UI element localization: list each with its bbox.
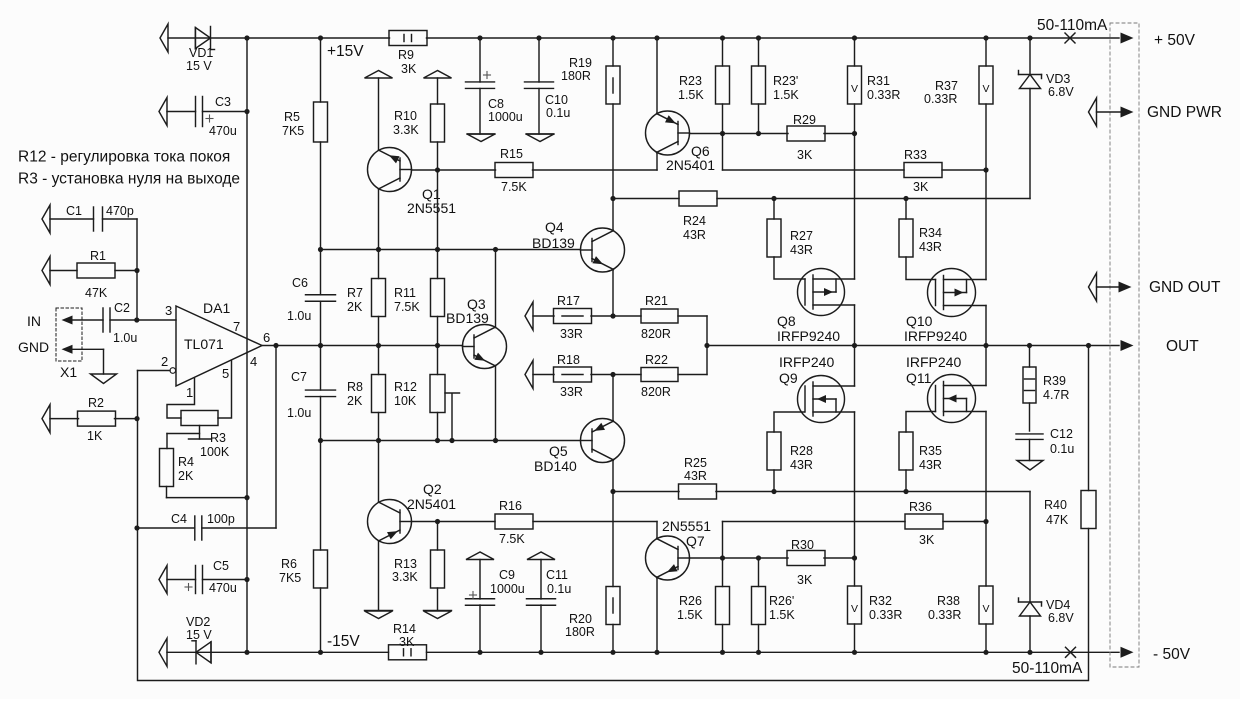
svg-text:R1: R1 bbox=[90, 249, 106, 263]
ground C12 bbox=[1017, 461, 1043, 471]
svg-text:R40: R40 bbox=[1044, 498, 1067, 512]
node R35 lower rail bbox=[903, 489, 908, 494]
wire Q2 collector bbox=[378, 441, 380, 503]
svg-text:3K: 3K bbox=[401, 62, 417, 76]
svg-text:TL071: TL071 bbox=[184, 336, 224, 352]
wire Q8 drain to output bbox=[854, 305, 856, 346]
svg-text:V: V bbox=[851, 83, 858, 95]
svg-text:BD139: BD139 bbox=[446, 310, 489, 326]
svg-text:R32: R32 bbox=[869, 594, 892, 608]
node R27 bias rail bbox=[771, 196, 776, 201]
svg-text:R37: R37 bbox=[935, 79, 958, 93]
pin 2 inverting input bbox=[170, 368, 176, 374]
svg-text:5: 5 bbox=[222, 366, 229, 381]
pin 1 wire bbox=[167, 379, 195, 419]
svg-text:V: V bbox=[851, 603, 858, 615]
wire Q1 collector bbox=[378, 78, 380, 150]
wire Q6 base row bbox=[690, 133, 789, 135]
resistor R13 bbox=[437, 522, 439, 551]
svg-text:R33: R33 bbox=[904, 148, 927, 162]
resistor R16 bbox=[495, 514, 533, 529]
svg-text:VD2: VD2 bbox=[186, 615, 210, 629]
resistor R23' bbox=[756, 35, 761, 40]
transistor Q7 2N5551 bbox=[646, 536, 690, 580]
svg-text:100p: 100p bbox=[207, 512, 235, 526]
svg-text:1.5K: 1.5K bbox=[769, 608, 795, 622]
svg-text:1000u: 1000u bbox=[488, 110, 523, 124]
wire Q7 emitter bbox=[656, 578, 658, 653]
wire C1 to R1 node bbox=[136, 219, 138, 320]
svg-text:15 V: 15 V bbox=[186, 628, 212, 642]
resistor R23 bbox=[720, 35, 725, 40]
resistor R26' 1.5K bbox=[756, 555, 761, 560]
capacitor C9 bbox=[466, 552, 494, 560]
svg-text:R15: R15 bbox=[500, 147, 523, 161]
capacitor C7 bbox=[320, 346, 322, 391]
wire -50V bottom rail bbox=[167, 651, 389, 653]
node R29 R31 bbox=[852, 131, 857, 136]
wire R15 to Q6 collector bbox=[533, 169, 658, 171]
svg-text:R26: R26 bbox=[679, 594, 702, 608]
resistor R6 bbox=[320, 441, 322, 551]
node R12 tap bbox=[449, 438, 454, 443]
svg-text:R6: R6 bbox=[281, 557, 297, 571]
resistor R24 43R bbox=[679, 191, 717, 206]
svg-text:C8: C8 bbox=[488, 97, 504, 111]
svg-text:R28: R28 bbox=[790, 444, 813, 458]
resistor R36 3K bbox=[905, 514, 943, 529]
svg-text:3.3K: 3.3K bbox=[393, 123, 419, 137]
svg-text:1.5K: 1.5K bbox=[678, 88, 704, 102]
svg-text:R14: R14 bbox=[393, 622, 416, 636]
svg-text:3K: 3K bbox=[919, 533, 935, 547]
svg-text:IRFP240: IRFP240 bbox=[906, 354, 961, 370]
node R18 bbox=[610, 372, 615, 377]
wire R16 row left bbox=[412, 521, 496, 523]
svg-text:50-110mA: 50-110mA bbox=[1012, 660, 1083, 677]
resistor R5 bbox=[320, 38, 322, 102]
transistor Q4 BD139 bbox=[581, 228, 625, 272]
wire Q5 emitter bbox=[612, 375, 614, 422]
wire Q11 drain to output bbox=[985, 346, 987, 386]
svg-text:R5: R5 bbox=[284, 110, 300, 124]
svg-text:C11: C11 bbox=[546, 568, 568, 582]
capacitor C5 bbox=[159, 566, 167, 594]
x mark bottom bbox=[1066, 647, 1076, 657]
node R36 bbox=[983, 519, 988, 524]
svg-text:2K: 2K bbox=[347, 300, 363, 314]
zener VD1 bbox=[194, 28, 196, 49]
transistor Q5 BD140 bbox=[581, 419, 625, 463]
svg-text:1.5K: 1.5K bbox=[677, 608, 703, 622]
wire +50V top rail bbox=[168, 37, 390, 39]
capacitor C12 bbox=[1016, 433, 1043, 435]
svg-text:33R: 33R bbox=[560, 327, 583, 341]
svg-text:43R: 43R bbox=[790, 458, 813, 472]
nodes output row bbox=[318, 343, 323, 348]
svg-text:X1: X1 bbox=[60, 364, 77, 380]
svg-text:R13: R13 bbox=[394, 557, 417, 571]
svg-text:10K: 10K bbox=[394, 394, 417, 408]
power flag R13 bbox=[424, 611, 452, 619]
svg-text:- 50V: - 50V bbox=[1153, 646, 1191, 663]
svg-text:C12: C12 bbox=[1050, 427, 1073, 441]
resistor R39 4.7R bbox=[1027, 343, 1032, 348]
svg-text:R3 - установка нуля на выходе: R3 - установка нуля на выходе bbox=[18, 171, 240, 188]
node R10 R15 bbox=[435, 167, 440, 172]
wire R10 to rail bbox=[437, 170, 439, 250]
svg-text:Q7: Q7 bbox=[686, 533, 705, 549]
node R4 to -15V line bbox=[244, 495, 249, 500]
resistor R7 bbox=[378, 250, 380, 279]
svg-text:R23': R23' bbox=[773, 74, 798, 88]
resistor R9 3K 2W bbox=[389, 31, 427, 46]
svg-text:R36: R36 bbox=[909, 500, 932, 514]
wire x=247 supply line pin7/pin4 bbox=[246, 38, 248, 652]
svg-text:33R: 33R bbox=[560, 385, 583, 399]
wire Q4 collector bbox=[612, 199, 614, 231]
svg-text:180R: 180R bbox=[561, 69, 591, 83]
resistor R37 0.33R 5W bbox=[983, 35, 988, 40]
svg-text:820R: 820R bbox=[641, 327, 671, 341]
svg-text:Q10: Q10 bbox=[906, 313, 933, 329]
wire to ground bbox=[103, 349, 105, 374]
node R19 bias rail bbox=[610, 196, 615, 201]
svg-text:R19: R19 bbox=[569, 56, 592, 70]
ground X1 bbox=[91, 374, 117, 384]
svg-text:R12 - регулировка тока покоя: R12 - регулировка тока покоя bbox=[18, 149, 230, 166]
node R2 feedback bbox=[134, 416, 139, 421]
wire Q10 drain to output bbox=[985, 306, 987, 346]
resistor R29 3K bbox=[787, 126, 825, 141]
resistor R21 bbox=[641, 309, 678, 323]
power flag Q2 bbox=[365, 611, 393, 619]
potentiometer R3 bbox=[181, 411, 218, 426]
transistor Q2 2N5401 bbox=[368, 500, 412, 544]
resistor R11 bbox=[437, 250, 439, 279]
wire lower bias rail bbox=[613, 491, 679, 493]
svg-text:6: 6 bbox=[263, 330, 270, 345]
svg-text:6.8V: 6.8V bbox=[1048, 611, 1074, 625]
resistor R19 180R 1W bbox=[610, 35, 615, 40]
svg-text:47K: 47K bbox=[1046, 513, 1069, 527]
resistor R30 3K bbox=[787, 551, 825, 566]
ground flag C8 bbox=[467, 134, 495, 142]
svg-text:Q5: Q5 bbox=[549, 443, 568, 459]
svg-text:820R: 820R bbox=[641, 385, 671, 399]
capacitor C10 bbox=[536, 35, 541, 40]
connector X1 bbox=[56, 308, 82, 361]
svg-text:15 V: 15 V bbox=[186, 59, 212, 73]
wire R28 to Q9 gate bbox=[774, 412, 804, 432]
svg-text:C5: C5 bbox=[213, 559, 229, 573]
svg-text:4: 4 bbox=[250, 354, 257, 369]
node R30 R32 bbox=[852, 555, 857, 560]
node R34 bias rail bbox=[903, 196, 908, 201]
wire Q4 emitter bbox=[612, 270, 614, 317]
capacitor C1 bbox=[42, 205, 50, 233]
svg-text:R7: R7 bbox=[347, 286, 363, 300]
capacitor C4 bbox=[134, 525, 139, 530]
wire R31 to Q8 source bbox=[854, 134, 856, 280]
svg-text:2K: 2K bbox=[347, 394, 363, 408]
svg-text:DA1: DA1 bbox=[203, 300, 230, 316]
svg-text:BD140: BD140 bbox=[534, 458, 577, 474]
svg-text:7.5K: 7.5K bbox=[394, 300, 420, 314]
svg-text:7K5: 7K5 bbox=[279, 571, 301, 585]
terminal +50V bbox=[1121, 33, 1134, 44]
svg-text:47K: 47K bbox=[85, 286, 108, 300]
svg-text:GND: GND bbox=[18, 339, 49, 355]
svg-text:43R: 43R bbox=[684, 469, 707, 483]
svg-text:2N5401: 2N5401 bbox=[666, 157, 715, 173]
terminal OUT bbox=[1121, 340, 1134, 351]
resistor R34 43R bbox=[905, 199, 907, 220]
svg-text:R4: R4 bbox=[178, 455, 194, 469]
resistor R38 0.33R 5W bbox=[985, 522, 987, 587]
wire upper driver rail bbox=[321, 249, 580, 251]
wire R34 to Q10 gate bbox=[906, 257, 936, 280]
ground flag VD2 row bbox=[159, 638, 167, 666]
svg-text:OUT: OUT bbox=[1166, 338, 1199, 355]
wire Q11 source down bbox=[985, 412, 987, 522]
resistor R15 bbox=[495, 163, 533, 178]
svg-text:C2: C2 bbox=[114, 301, 130, 315]
svg-text:C1: C1 bbox=[66, 204, 82, 218]
svg-text:3K: 3K bbox=[913, 180, 929, 194]
node pin3 bbox=[134, 317, 139, 322]
svg-text:50-110mA: 50-110mA bbox=[1037, 17, 1108, 34]
svg-text:BD139: BD139 bbox=[532, 235, 575, 251]
svg-text:7.5K: 7.5K bbox=[501, 180, 527, 194]
zener VD4 bbox=[1029, 492, 1031, 603]
svg-text:R22: R22 bbox=[645, 353, 668, 367]
wire output pin 6 bbox=[262, 345, 463, 347]
svg-text:1.0u: 1.0u bbox=[113, 331, 137, 345]
capacitor C2 bbox=[102, 308, 104, 332]
svg-text:R16: R16 bbox=[499, 499, 522, 513]
svg-text:GND PWR: GND PWR bbox=[1147, 104, 1222, 121]
svg-text:R25: R25 bbox=[684, 456, 707, 470]
svg-text:6.8V: 6.8V bbox=[1048, 85, 1074, 99]
wire upper bias rail bbox=[613, 198, 679, 200]
svg-text:2N5401: 2N5401 bbox=[407, 496, 456, 512]
mosfet Q9 IRFP240 bbox=[798, 376, 845, 423]
node C3 bbox=[244, 109, 249, 114]
wire R23 node down bbox=[722, 134, 724, 171]
svg-text:R35: R35 bbox=[919, 444, 942, 458]
ground flag R17 bbox=[525, 302, 533, 330]
pin GND bbox=[62, 345, 73, 354]
svg-text:1: 1 bbox=[186, 385, 193, 400]
svg-text:R29: R29 bbox=[793, 113, 816, 127]
wire Q9 drain to output bbox=[854, 346, 856, 387]
svg-text:3.3K: 3.3K bbox=[392, 570, 418, 584]
resistor R8 bbox=[378, 346, 380, 375]
svg-text:0.33R: 0.33R bbox=[924, 92, 957, 106]
svg-text:2: 2 bbox=[161, 354, 168, 369]
resistor R27 43R bbox=[773, 199, 775, 220]
svg-text:-15V: -15V bbox=[327, 633, 360, 650]
resistor R35 43R bbox=[899, 432, 913, 470]
svg-text:C4: C4 bbox=[171, 512, 187, 526]
svg-text:1000u: 1000u bbox=[490, 582, 525, 596]
svg-text:R27: R27 bbox=[790, 229, 813, 243]
resistor R31 0.33R 5W bbox=[852, 35, 857, 40]
terminal GND PWR bbox=[1089, 98, 1097, 126]
svg-text:1.0u: 1.0u bbox=[287, 309, 311, 323]
power flag Q1 bbox=[365, 71, 393, 79]
svg-text:Q11: Q11 bbox=[906, 370, 932, 386]
svg-text:R31: R31 bbox=[867, 74, 890, 88]
resistor R17 33R bbox=[533, 315, 554, 317]
svg-text:3K: 3K bbox=[399, 635, 415, 649]
resistor R20 180R 1W bbox=[610, 489, 615, 494]
node R13 bbox=[435, 519, 440, 524]
ground flag C10 bbox=[526, 134, 554, 142]
svg-text:R38: R38 bbox=[937, 594, 960, 608]
svg-text:43R: 43R bbox=[919, 458, 942, 472]
transistor Q6 2N5401 bbox=[646, 111, 690, 155]
node R17 bbox=[610, 313, 615, 318]
svg-text:R8: R8 bbox=[347, 380, 363, 394]
svg-text:470u: 470u bbox=[209, 581, 237, 595]
wire Q7 base row bbox=[690, 557, 789, 559]
svg-text:R23: R23 bbox=[679, 74, 702, 88]
transistor Q3 BD139 bbox=[463, 325, 507, 369]
svg-text:7K5: 7K5 bbox=[282, 124, 304, 138]
svg-text:3K: 3K bbox=[797, 573, 813, 587]
svg-text:100K: 100K bbox=[200, 445, 230, 459]
wire C4 riser bbox=[275, 346, 277, 529]
svg-text:VD4: VD4 bbox=[1046, 598, 1070, 612]
node R33 bbox=[983, 167, 988, 172]
svg-text:GND OUT: GND OUT bbox=[1149, 279, 1221, 296]
wire R21 R22 junction bbox=[706, 316, 708, 375]
svg-text:VD1: VD1 bbox=[189, 46, 213, 60]
svg-text:3K: 3K bbox=[797, 148, 813, 162]
resistor R14 3K 2W bbox=[389, 645, 427, 660]
transistor Q1 2N5551 bbox=[368, 148, 412, 192]
node Q8 output bbox=[852, 343, 857, 348]
svg-text:4.7R: 4.7R bbox=[1043, 388, 1069, 402]
capacitor C3 bbox=[159, 98, 167, 126]
pin IN bbox=[62, 316, 73, 325]
x mark top bbox=[1065, 33, 1075, 43]
svg-text:470u: 470u bbox=[209, 124, 237, 138]
wire lower driver rail bbox=[321, 440, 580, 442]
capacitor C11 bbox=[527, 552, 555, 560]
svg-text:7.5K: 7.5K bbox=[499, 532, 525, 546]
mosfet Q11 IRFP240 bbox=[928, 375, 976, 423]
zener VD3 bbox=[1029, 38, 1031, 75]
svg-text:2N5551: 2N5551 bbox=[662, 518, 711, 534]
capacitor C6 bbox=[320, 250, 322, 295]
svg-text:Q4: Q4 bbox=[545, 219, 564, 235]
svg-text:R2: R2 bbox=[88, 396, 104, 410]
svg-text:Q9: Q9 bbox=[779, 370, 798, 386]
resistor R33 3K bbox=[904, 163, 942, 178]
wire Q6 emitter bbox=[656, 38, 658, 114]
svg-text:43R: 43R bbox=[790, 243, 813, 257]
ground flag VD1 row bbox=[160, 24, 168, 52]
wire R37 to Q10 source bbox=[985, 170, 987, 280]
svg-text:C7: C7 bbox=[291, 370, 307, 384]
wire R16 to Q7 collector bbox=[533, 521, 657, 523]
svg-text:C10: C10 bbox=[545, 93, 568, 107]
resistor R32 0.33R 5W bbox=[854, 558, 856, 586]
svg-text:0.1u: 0.1u bbox=[546, 106, 570, 120]
svg-text:C3: C3 bbox=[215, 95, 231, 109]
svg-text:C9: C9 bbox=[499, 568, 515, 582]
svg-text:VD3: VD3 bbox=[1046, 72, 1070, 86]
wire Q3 emitter bbox=[495, 366, 497, 441]
svg-text:0.1u: 0.1u bbox=[1050, 442, 1074, 456]
svg-text:IRFP9240: IRFP9240 bbox=[777, 328, 840, 344]
wire Q2 emitter bbox=[378, 541, 380, 610]
svg-text:R11: R11 bbox=[394, 286, 416, 300]
trimmer R12 bbox=[437, 346, 439, 375]
svg-text:R21: R21 bbox=[645, 294, 668, 308]
resistor R10 bbox=[437, 78, 439, 104]
svg-text:R9: R9 bbox=[398, 48, 414, 62]
zener VD2 bbox=[210, 642, 212, 663]
resistor R1 bbox=[42, 257, 50, 285]
svg-text:43R: 43R bbox=[683, 228, 706, 242]
svg-text:1.5K: 1.5K bbox=[773, 88, 799, 102]
svg-text:IN: IN bbox=[27, 313, 41, 329]
svg-text:IRFP240: IRFP240 bbox=[779, 354, 834, 370]
svg-text:IRFP9240: IRFP9240 bbox=[904, 328, 967, 344]
node output bbox=[273, 343, 278, 348]
svg-text:1K: 1K bbox=[87, 429, 103, 443]
op-amp DA1 TL071 bbox=[176, 306, 262, 386]
svg-text:R17: R17 bbox=[557, 294, 580, 308]
wire Q5 collector bbox=[612, 460, 614, 492]
wire output row right bbox=[707, 345, 1119, 347]
ground flag R18 bbox=[525, 361, 533, 389]
svg-text:180R: 180R bbox=[565, 625, 595, 639]
pin 5 wire bbox=[218, 361, 232, 419]
svg-text:0.33R: 0.33R bbox=[928, 608, 961, 622]
terminal -50V bbox=[1121, 647, 1134, 658]
terminal GND OUT bbox=[1089, 273, 1097, 301]
node R1 bbox=[134, 268, 139, 273]
node R28 lower rail bbox=[771, 489, 776, 494]
svg-text:V: V bbox=[982, 83, 989, 95]
wire pin2 to feedback node bbox=[137, 371, 139, 419]
power flag R10 bbox=[424, 71, 452, 79]
resistor R22 bbox=[641, 368, 678, 382]
svg-text:V: V bbox=[982, 603, 989, 615]
svg-text:R26': R26' bbox=[769, 594, 794, 608]
wire Q3 collector bbox=[495, 250, 497, 328]
svg-text:2N5551: 2N5551 bbox=[407, 200, 456, 216]
mosfet Q8 IRFP9240 bbox=[798, 269, 845, 316]
wire feedback bbox=[138, 419, 1089, 681]
wire R36 row bbox=[723, 521, 906, 523]
capacitor C8 bbox=[477, 35, 482, 40]
svg-text:R30: R30 bbox=[791, 538, 814, 552]
svg-text:7: 7 bbox=[233, 319, 240, 334]
wire R33 row bbox=[723, 169, 905, 171]
svg-text:+ 50V: + 50V bbox=[1154, 32, 1196, 49]
resistor R2 bbox=[42, 405, 50, 433]
wire R35 to Q11 gate bbox=[906, 412, 936, 433]
wire R15 row left bbox=[412, 169, 496, 171]
wire Q9 source down bbox=[854, 412, 856, 558]
svg-text:1.0u: 1.0u bbox=[287, 406, 311, 420]
